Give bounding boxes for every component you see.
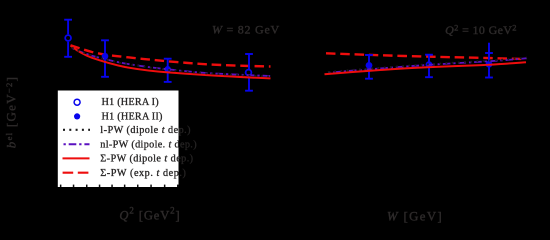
svg-text:Q2 = 10 GeV2: Q2 = 10 GeV2 (445, 22, 517, 37)
P1 open circle marker (65, 35, 71, 41)
axis tick notches on legend box bottom (60, 185, 179, 187)
svg-text:H1 (HERA I): H1 (HERA I) (102, 97, 159, 108)
svg-text:Σ-PW (exp. t dep.): Σ-PW (exp. t dep.) (100, 168, 186, 179)
legend marker: filled circle (74, 113, 80, 119)
l-PW dotted l-PW dotted black curve (right panel) (328, 58, 527, 72)
P3 filled circle marker (164, 66, 171, 73)
svg-text:Σ-PW (dipole t dep.): Σ-PW (dipole t dep.) (100, 154, 193, 165)
nl-PW dash-dot purple curve (328, 58, 527, 72)
svg-text:W = 82 GeV: W = 82 GeV (212, 23, 280, 37)
Sigma-PW solid red curve (71, 46, 271, 79)
P4 open circle marker (246, 70, 252, 76)
legend swatch: purple dash-dot (64, 143, 90, 145)
legend swatch: black dotted (63, 129, 90, 131)
legend swatch: red solid (63, 157, 90, 159)
legend text (100, 97, 197, 179)
point P1 error bar (64, 20, 72, 57)
Sigma-PW dashed red curve (right panel, exp t dep) (326, 53, 526, 59)
point P6 error bar (425, 55, 433, 77)
legend swatch: red dashed (63, 172, 89, 174)
P2 filled circle marker (102, 53, 109, 60)
point P2 error bar (101, 40, 109, 77)
svg-text:bel [GeV−2]: bel [GeV−2] (3, 76, 18, 148)
legend white box (58, 91, 179, 188)
P6 filled circle marker (426, 61, 433, 68)
point P5 error bar (365, 55, 373, 79)
svg-text:Q2 [GeV2]: Q2 [GeV2] (119, 205, 180, 222)
point P7 error bar with tall upper segment (485, 43, 493, 78)
svg-text:nl-PW (dipole. t dep.): nl-PW (dipole. t dep.) (100, 139, 197, 150)
svg-text:l-PW (dipole t dep.): l-PW (dipole t dep.) (100, 125, 191, 136)
legend marker: open circle (74, 99, 80, 105)
Sigma-PW solid red curve (325, 62, 527, 74)
l-PW dotted l-PW dotted black curve (left panel) (72, 48, 271, 77)
P7 filled circle marker (486, 61, 493, 68)
P4 error bar (245, 54, 253, 91)
point P3 error bar (164, 59, 172, 82)
svg-text:H1 (HERA II): H1 (HERA II) (102, 111, 163, 122)
nl-PW dash-dot purple curve (72, 48, 271, 76)
Sigma-PW dashed red curve (left panel, exp t dep) (71, 45, 271, 66)
svg-text:W [GeV]: W [GeV] (387, 209, 443, 223)
P5 filled circle marker (366, 62, 373, 69)
